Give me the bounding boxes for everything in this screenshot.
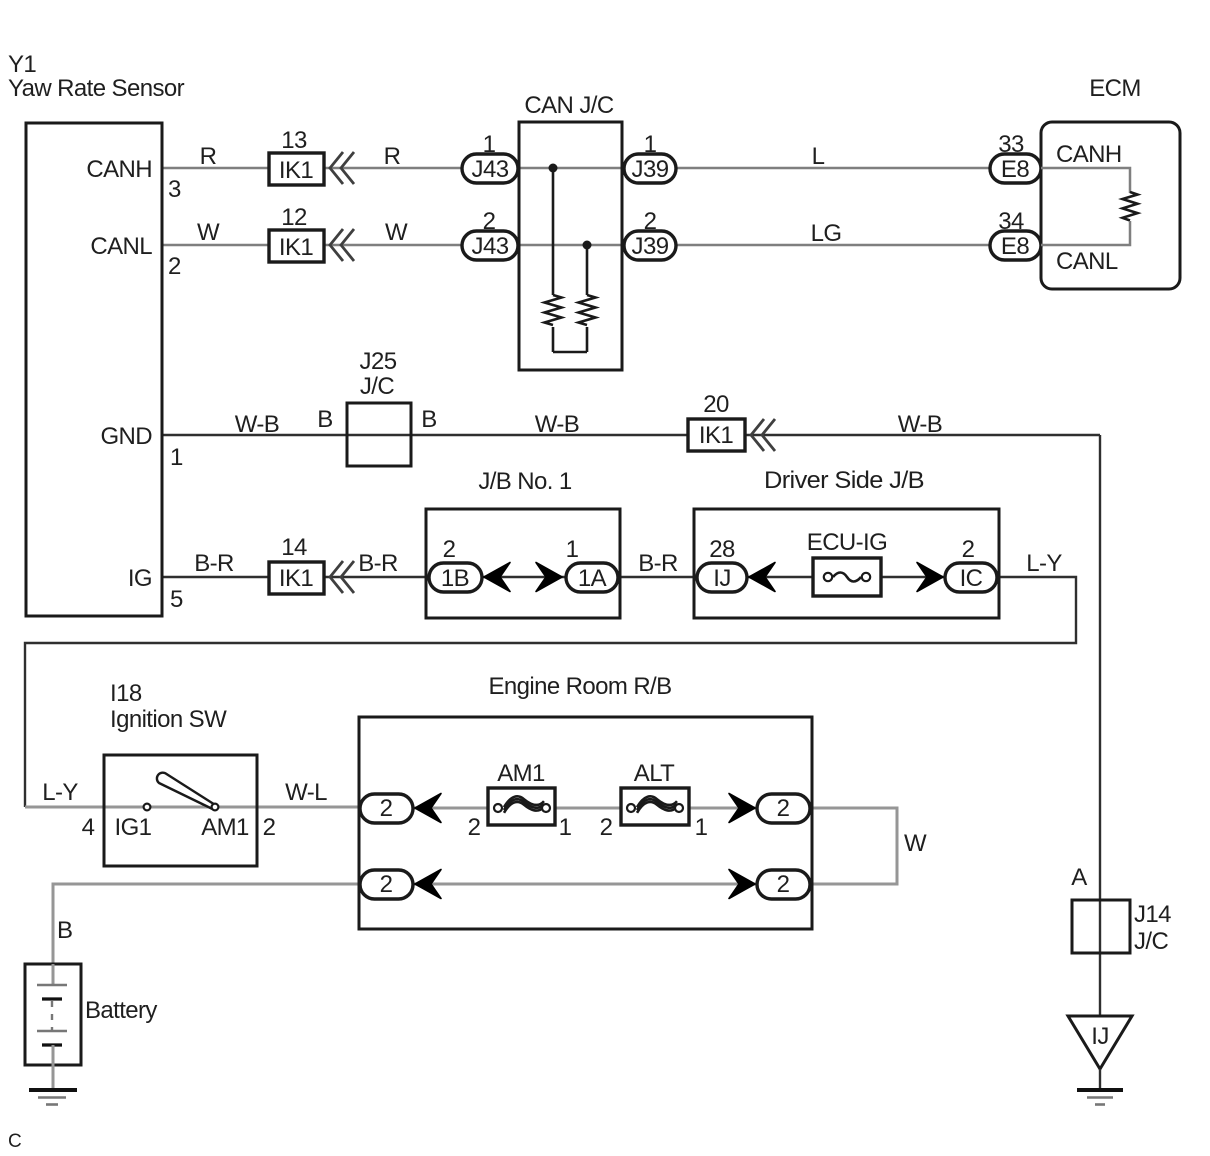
svg-text:Battery: Battery bbox=[85, 997, 157, 1024]
svg-text:GND: GND bbox=[100, 423, 152, 450]
svg-text:E8: E8 bbox=[1001, 233, 1029, 260]
splice IK1 20 bbox=[688, 419, 745, 451]
CAN J/C box bbox=[519, 122, 622, 370]
wire GND row (W-B) bbox=[162, 434, 1100, 436]
svg-text:20: 20 bbox=[703, 391, 729, 418]
svg-text:IG: IG bbox=[128, 565, 152, 592]
svg-text:J43: J43 bbox=[472, 156, 509, 183]
chevron splice marks IG bbox=[330, 561, 354, 593]
svg-text:R: R bbox=[200, 143, 217, 170]
fusible link ALT symbol bbox=[637, 796, 677, 807]
svg-text:2: 2 bbox=[468, 814, 481, 841]
resistor lead left lower bbox=[552, 327, 555, 352]
svg-text:R: R bbox=[384, 143, 401, 170]
fusible link AM1 box bbox=[488, 788, 555, 825]
svg-text:J/C: J/C bbox=[1134, 928, 1168, 955]
chevron splice marks CANL bbox=[330, 229, 354, 261]
connector J43 pin1 bbox=[462, 154, 518, 183]
junction J25 J/C box bbox=[347, 403, 411, 466]
svg-text:CANH: CANH bbox=[86, 156, 152, 183]
ignition switch I18 box bbox=[104, 755, 257, 866]
svg-text:1: 1 bbox=[559, 814, 572, 841]
svg-text:W-B: W-B bbox=[898, 411, 942, 438]
svg-text:2: 2 bbox=[962, 536, 975, 563]
svg-text:IG1: IG1 bbox=[115, 814, 152, 841]
svg-text:13: 13 bbox=[281, 127, 307, 154]
J/B No.1 box bbox=[426, 509, 620, 618]
wire CANL row (W / LG) bbox=[162, 244, 990, 247]
connector arrow before 1A bbox=[536, 563, 562, 592]
battery dashed link bbox=[51, 1001, 53, 1031]
fuse ECU-IG box bbox=[813, 558, 881, 596]
wire engine room right loop (W) bbox=[808, 808, 897, 884]
svg-text:W-B: W-B bbox=[235, 411, 279, 438]
terminating resistor left bbox=[545, 295, 562, 325]
svg-text:W-L: W-L bbox=[285, 779, 327, 806]
connector arrow bottom-left bbox=[415, 870, 441, 899]
connector arrow top-right bbox=[729, 794, 755, 823]
svg-text:1A: 1A bbox=[578, 565, 607, 592]
svg-text:J25: J25 bbox=[360, 348, 397, 375]
svg-text:2: 2 bbox=[380, 795, 393, 822]
wire triangle to ground bbox=[1099, 1069, 1101, 1090]
battery plate long 1 bbox=[37, 984, 67, 987]
switch contact AM1 bbox=[212, 804, 219, 811]
connector 2 bottom-left bbox=[360, 870, 413, 899]
svg-text:IK1: IK1 bbox=[279, 234, 313, 261]
wire right vertical W-B to J14 bbox=[1099, 435, 1101, 1016]
svg-text:1: 1 bbox=[170, 444, 183, 471]
svg-text:IC: IC bbox=[960, 565, 983, 592]
battery plate short 1 bbox=[42, 997, 62, 1000]
wire IG row (B-R) bbox=[162, 576, 999, 578]
svg-text:ECM: ECM bbox=[1089, 75, 1141, 102]
svg-text:Yaw Rate Sensor: Yaw Rate Sensor bbox=[8, 75, 185, 102]
ground IJ bbox=[1077, 1088, 1123, 1092]
battery feed internal bbox=[52, 964, 55, 985]
ground battery bbox=[29, 1088, 77, 1092]
svg-text:2: 2 bbox=[777, 871, 790, 898]
svg-text:1: 1 bbox=[566, 536, 579, 563]
svg-text:5: 5 bbox=[170, 586, 183, 613]
svg-text:IJ: IJ bbox=[713, 565, 730, 592]
terminating resistor right bbox=[579, 295, 596, 325]
connector J43 pin2 bbox=[462, 231, 518, 260]
svg-text:LG: LG bbox=[811, 220, 842, 247]
svg-text:J/C: J/C bbox=[360, 373, 394, 400]
svg-text:IK1: IK1 bbox=[699, 422, 733, 449]
svg-text:B-R: B-R bbox=[358, 550, 398, 577]
svg-text:AM1: AM1 bbox=[201, 814, 249, 841]
svg-text:L-Y: L-Y bbox=[42, 779, 78, 806]
junction dot CANL bbox=[583, 241, 592, 250]
svg-text:2: 2 bbox=[600, 814, 613, 841]
svg-text:J39: J39 bbox=[632, 233, 669, 260]
connector 1B bbox=[429, 563, 482, 592]
wire L-Y return path bbox=[25, 577, 1076, 807]
svg-text:W-B: W-B bbox=[535, 411, 579, 438]
svg-text:Y1: Y1 bbox=[8, 51, 36, 78]
battery plate short 2 bbox=[42, 1043, 62, 1046]
svg-text:Driver Side J/B: Driver Side J/B bbox=[764, 467, 924, 494]
Driver Side J/B box bbox=[694, 509, 999, 618]
wire CANH row (R / L) bbox=[162, 167, 990, 170]
fusible link AM1 symbol bbox=[504, 796, 544, 807]
wire engine room top row bbox=[413, 807, 760, 810]
ECM box bbox=[1041, 122, 1180, 289]
connector 2 bottom-right bbox=[757, 870, 810, 899]
svg-text:2: 2 bbox=[777, 795, 790, 822]
ECM internal wire bottom bbox=[1041, 221, 1130, 245]
svg-text:J/B No. 1: J/B No. 1 bbox=[478, 468, 572, 495]
svg-text:CANL: CANL bbox=[90, 233, 152, 260]
svg-text:Ignition SW: Ignition SW bbox=[110, 706, 227, 733]
switch lever bbox=[157, 773, 215, 810]
svg-text:B-R: B-R bbox=[194, 550, 234, 577]
connector 2 top-right bbox=[757, 794, 810, 823]
svg-text:C: C bbox=[8, 1131, 22, 1152]
connector arrow after 1B bbox=[484, 563, 510, 592]
connector 2 top-left bbox=[360, 794, 413, 823]
connector arrow before IC bbox=[917, 563, 943, 592]
svg-text:CANH: CANH bbox=[1056, 141, 1122, 168]
svg-text:2: 2 bbox=[168, 253, 181, 280]
Engine Room R/B box bbox=[359, 717, 812, 929]
svg-text:L: L bbox=[812, 143, 825, 170]
connector arrow after IJ bbox=[749, 563, 775, 592]
connector E8 pin34 bbox=[990, 231, 1041, 260]
connector IJ bbox=[697, 563, 747, 592]
svg-text:CAN J/C: CAN J/C bbox=[524, 92, 613, 119]
battery box bbox=[25, 964, 81, 1065]
splice IK1 12 bbox=[269, 230, 324, 262]
svg-text:L-Y: L-Y bbox=[1026, 550, 1062, 577]
svg-text:J14: J14 bbox=[1134, 901, 1171, 928]
resistor bottom link bbox=[553, 351, 587, 354]
svg-text:14: 14 bbox=[281, 534, 307, 561]
battery plate long 2 bbox=[37, 1030, 67, 1033]
svg-text:IJ: IJ bbox=[1091, 1023, 1108, 1050]
wire engine room bottom row bbox=[413, 883, 760, 886]
svg-text:B: B bbox=[317, 406, 332, 433]
splice IK1 13 bbox=[269, 153, 324, 185]
svg-text:ECU-IG: ECU-IG bbox=[807, 529, 887, 556]
battery to ground wire bbox=[52, 1045, 55, 1090]
switch contact IG1 bbox=[144, 804, 151, 811]
junction dot CANH bbox=[549, 164, 558, 173]
svg-text:2: 2 bbox=[263, 814, 276, 841]
svg-text:4: 4 bbox=[82, 814, 95, 841]
svg-text:IK1: IK1 bbox=[279, 565, 313, 592]
chevron splice marks CANH bbox=[330, 152, 354, 184]
svg-text:3: 3 bbox=[168, 176, 181, 203]
fuse ECU-IG symbol bbox=[833, 573, 861, 582]
connector J39 pin1 bbox=[624, 154, 676, 183]
svg-text:AM1: AM1 bbox=[497, 760, 545, 787]
svg-text:W: W bbox=[904, 830, 927, 857]
splice IK1 14 bbox=[269, 562, 324, 594]
svg-text:J43: J43 bbox=[472, 233, 509, 260]
resistor lead right lower bbox=[586, 327, 589, 352]
connector IC bbox=[945, 563, 997, 592]
svg-text:E8: E8 bbox=[1001, 156, 1029, 183]
ECM internal wire top bbox=[1041, 168, 1130, 193]
svg-text:Engine Room R/B: Engine Room R/B bbox=[488, 673, 671, 700]
svg-text:B-R: B-R bbox=[638, 550, 678, 577]
svg-text:B: B bbox=[421, 406, 436, 433]
svg-text:2: 2 bbox=[443, 536, 456, 563]
junction J14 J/C box bbox=[1072, 900, 1130, 953]
svg-text:ALT: ALT bbox=[634, 760, 675, 787]
connector arrow top-left bbox=[415, 794, 441, 823]
svg-text:W: W bbox=[197, 219, 220, 246]
connector 1A bbox=[566, 563, 618, 592]
fusible link ALT box bbox=[621, 788, 689, 825]
wire ignition row (L-Y / W-L) bbox=[25, 806, 363, 809]
connector arrow bottom-right bbox=[729, 870, 755, 899]
resistor lead left bbox=[552, 168, 555, 295]
connector E8 pin33 bbox=[990, 154, 1041, 183]
svg-text:1B: 1B bbox=[441, 565, 469, 592]
yaw rate sensor Y1 box bbox=[26, 123, 162, 616]
wire battery feed (B) bbox=[53, 884, 360, 985]
svg-text:28: 28 bbox=[709, 536, 735, 563]
svg-text:A: A bbox=[1071, 864, 1087, 891]
svg-text:CANL: CANL bbox=[1056, 248, 1118, 275]
svg-text:I18: I18 bbox=[110, 680, 142, 707]
ground triangle IJ bbox=[1068, 1016, 1132, 1069]
chevron splice marks GND bbox=[751, 419, 775, 451]
svg-text:1: 1 bbox=[695, 814, 708, 841]
resistor lead right bbox=[586, 245, 589, 295]
svg-text:2: 2 bbox=[380, 871, 393, 898]
svg-text:12: 12 bbox=[281, 204, 307, 231]
ECM terminating resistor bbox=[1123, 192, 1138, 221]
svg-text:B: B bbox=[57, 917, 72, 944]
svg-text:W: W bbox=[385, 219, 408, 246]
connector J39 pin2 bbox=[624, 231, 676, 260]
svg-text:J39: J39 bbox=[632, 156, 669, 183]
svg-text:IK1: IK1 bbox=[279, 157, 313, 184]
